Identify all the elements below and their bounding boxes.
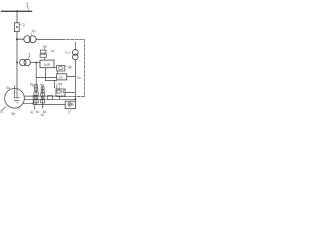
wire relay to riser — [65, 92, 75, 94]
label 9 leader — [69, 109, 71, 111]
svg-text:4c: 4c — [30, 110, 34, 114]
box 8a upper — [40, 50, 46, 53]
controller box uC — [57, 74, 67, 80]
svg-text:5c: 5c — [36, 110, 40, 114]
svg-text:8a: 8a — [43, 44, 47, 48]
transformer 7 upper lead — [74, 42, 76, 50]
CT chain A circle 2 — [34, 88, 37, 91]
breaker 2 — [14, 23, 19, 32]
phase line 1 — [24, 95, 65, 97]
wire feeder mid — [16, 32, 18, 63]
svg-text:uC: uC — [59, 75, 64, 79]
phase line 3 jog — [32, 103, 34, 104]
CT chain B circle 3 — [41, 96, 44, 99]
breaker box 9 — [65, 101, 75, 108]
measurement drop wire — [35, 63, 37, 86]
wire AVR to exciter box — [54, 67, 57, 69]
link between stacked boxes — [44, 53, 46, 54]
svg-text:AVR: AVR — [44, 63, 51, 67]
node phase2 riser — [75, 98, 77, 100]
chain A wire upper — [35, 85, 37, 105]
feeder lower to machine — [16, 63, 18, 90]
aux box — [48, 96, 53, 100]
riser into breaker 9 — [74, 99, 76, 101]
wire transformer 3 to controller box — [36, 38, 62, 40]
label 6 arrow — [32, 86, 34, 88]
box 8a lower — [40, 54, 46, 57]
transformer 7 — [72, 50, 78, 56]
brush bar lower — [14, 99, 19, 101]
transformer 4 — [20, 59, 26, 65]
label 4 leader — [28, 57, 29, 59]
label 3 leader — [31, 33, 33, 37]
output down arrow — [54, 81, 56, 88]
svg-text:5b: 5b — [11, 112, 15, 116]
transformer 7 lower lead — [74, 60, 76, 99]
CT chain A circle 3 — [35, 96, 38, 99]
chain B junction dots — [42, 95, 43, 96]
transformer 3 — [24, 36, 31, 43]
label 5 arrow — [1, 107, 5, 111]
CT chain A box 1 — [34, 92, 38, 96]
node on regulator input — [35, 62, 37, 64]
svg-text:9: 9 — [68, 111, 70, 115]
exciter box with oval — [57, 65, 65, 71]
generator 5 — [5, 88, 25, 108]
svg-text:1: 1 — [28, 53, 31, 59]
CT chain A circle 1 — [34, 85, 37, 88]
phase line 3 — [23, 102, 33, 104]
busbar (network) — [1, 10, 31, 12]
svg-text:1b: 1b — [40, 113, 44, 117]
wire to transformer 3 — [17, 38, 24, 40]
label 8b arrow — [66, 66, 68, 68]
node transformer 4 tap — [16, 62, 18, 64]
leader 8a to box — [44, 48, 46, 51]
svg-text:8b: 8b — [68, 66, 72, 70]
regulator box AVR — [40, 60, 54, 68]
wire feeder upper — [16, 11, 18, 22]
second slipring lead — [14, 86, 16, 98]
CT chain B circle 2 — [41, 90, 44, 93]
label 4b arrow — [42, 85, 45, 86]
node 1 leader tick — [27, 7, 30, 10]
svg-text:1: 1 — [26, 3, 29, 9]
svg-text:1b: 1b — [32, 29, 36, 33]
rotor tick — [16, 102, 19, 104]
svg-text:1a: 1a — [50, 49, 54, 53]
output corner run — [45, 80, 56, 82]
svg-text:5a: 5a — [30, 83, 34, 87]
relay lower stub — [59, 96, 61, 99]
CT chain B box 2 — [41, 100, 45, 103]
CT chain B box 1 — [41, 93, 45, 96]
dashed enclosure right edge — [83, 40, 85, 97]
link to regulator — [44, 57, 46, 60]
phase line 2 — [24, 98, 75, 100]
node phase3 — [32, 103, 34, 105]
svg-text:6a: 6a — [58, 82, 62, 86]
chain B arrow head — [42, 106, 44, 108]
junction on busbar — [16, 10, 18, 12]
chain A junction dots — [35, 95, 36, 96]
chain A lower arrow — [34, 105, 36, 109]
node at transformer 3 tap — [16, 38, 18, 40]
label 7 arrow — [67, 52, 70, 54]
wire uC to riser — [67, 76, 76, 78]
svg-text:7b: 7b — [77, 76, 81, 80]
label 2 leader — [19, 23, 22, 26]
exciter box to uC link — [57, 71, 59, 74]
label 6a arrow — [59, 85, 61, 89]
CT chain B circle 1 — [41, 87, 44, 90]
wire transformer 4 to regulator — [30, 62, 40, 64]
relay box 6 — [56, 89, 65, 96]
CT column link — [32, 96, 34, 103]
dashed enclosure left stub — [56, 84, 58, 88]
svg-text:7: 7 — [65, 51, 67, 55]
CT chain A box 2 — [34, 100, 38, 103]
brush bar upper — [14, 97, 20, 99]
phase line 3 lower run — [33, 104, 65, 106]
regulator output drop — [44, 68, 46, 81]
dashed enclosure bottom edge — [57, 96, 85, 98]
long feedback line — [36, 76, 56, 78]
CT chain B wire — [42, 86, 44, 107]
slipring lead inside — [16, 89, 18, 98]
dashed enclosure top edge — [62, 39, 84, 41]
